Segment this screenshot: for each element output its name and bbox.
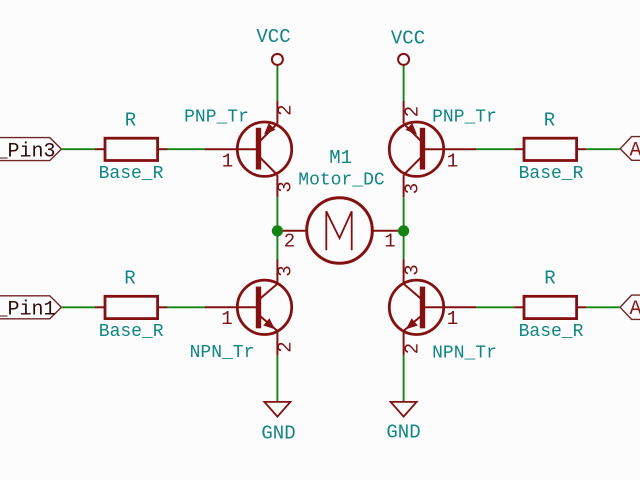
ground GND left: [261, 402, 295, 444]
svg-text:A: A: [630, 140, 640, 163]
wire R1 to Q1 base: [167, 148, 206, 150]
svg-text:R: R: [544, 109, 555, 131]
wire VCC left to Q1 emitter: [276, 65, 278, 102]
wire Q1 collector to Q2 collector (left column): [276, 197, 278, 259]
svg-text:Base_R: Base_R: [519, 322, 584, 342]
svg-text:3: 3: [275, 181, 297, 192]
motor M1 Motor_DC: [278, 147, 404, 263]
svg-text:Base_R: Base_R: [99, 322, 164, 342]
resistor R1 (Base_R top-left): [95, 109, 167, 184]
svg-text:2: 2: [275, 341, 297, 352]
svg-text:PNP_Tr: PNP_Tr: [432, 108, 497, 128]
svg-text:VCC: VCC: [256, 26, 290, 48]
svg-text:GND: GND: [261, 422, 295, 444]
svg-text:1: 1: [221, 308, 232, 330]
svg-text:1: 1: [447, 308, 458, 330]
svg-text:2: 2: [402, 343, 424, 354]
svg-text:1: 1: [447, 151, 458, 173]
wire Q4 emitter to GND right: [403, 355, 405, 402]
wire label _Pin3 to R1: [62, 148, 96, 150]
wire VCC right to Q3 emitter: [403, 65, 405, 102]
global label _Pin1: [0, 296, 61, 322]
resistor R2 (Base_R bottom-left): [95, 267, 167, 342]
svg-text:2: 2: [402, 106, 424, 117]
svg-text:_Pin1: _Pin1: [0, 299, 56, 322]
svg-text:2: 2: [275, 104, 297, 115]
svg-text:R: R: [544, 267, 555, 289]
junction node left: [272, 225, 283, 236]
svg-text:NPN_Tr: NPN_Tr: [432, 344, 497, 364]
wire Q3 collector to Q4 collector (right column): [403, 197, 405, 259]
svg-text:R: R: [124, 267, 135, 289]
transistor Q3 PNP_Tr (top-right, mirrored): [389, 101, 497, 197]
svg-text:R: R: [125, 109, 136, 131]
wire label _Pin1 to R2: [62, 306, 96, 308]
resistor R4 (Base_R bottom-right): [514, 267, 586, 342]
svg-text:PNP_Tr: PNP_Tr: [184, 108, 249, 128]
power symbol VCC right: [391, 28, 425, 65]
global label A (top right): [620, 137, 640, 163]
transistor Q4 NPN_Tr (bottom-right, mirrored): [389, 259, 497, 363]
svg-text:3: 3: [402, 183, 424, 194]
wire Q2 emitter to GND left: [276, 355, 278, 402]
svg-text:GND: GND: [386, 422, 420, 444]
svg-text:M1: M1: [329, 147, 352, 169]
svg-text:Base_R: Base_R: [99, 164, 164, 184]
resistor R3 (Base_R top-right): [514, 109, 586, 184]
svg-text:A: A: [630, 298, 640, 321]
svg-text:3: 3: [402, 264, 424, 275]
wire R3 to label A top: [586, 148, 619, 150]
svg-text:1: 1: [384, 231, 395, 253]
svg-text:2: 2: [284, 231, 295, 253]
ground GND right: [386, 402, 420, 444]
global label A (bottom right): [620, 295, 640, 321]
transistor Q1 PNP_Tr (top-left): [184, 101, 292, 197]
power symbol VCC left: [256, 26, 290, 65]
wire Q4 base to R4: [476, 306, 515, 308]
global label _Pin3: [0, 138, 61, 164]
wire R4 to label A bottom: [586, 306, 619, 308]
svg-text:3: 3: [275, 265, 297, 276]
wire R2 to Q2 base: [167, 306, 206, 308]
svg-text:Base_R: Base_R: [519, 164, 584, 184]
transistor Q2 NPN_Tr (bottom-left): [190, 259, 292, 363]
svg-text:VCC: VCC: [391, 28, 425, 50]
svg-text:1: 1: [222, 151, 233, 173]
svg-text:_Pin3: _Pin3: [0, 141, 56, 164]
svg-text:Motor_DC: Motor_DC: [298, 171, 385, 191]
junction node right: [398, 225, 409, 236]
svg-text:NPN_Tr: NPN_Tr: [190, 343, 255, 363]
wire Q3 base to R3: [476, 148, 515, 150]
